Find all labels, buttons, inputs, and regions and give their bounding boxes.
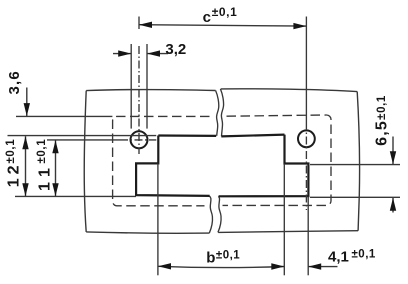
svg-text:b: b (206, 249, 215, 266)
centerline right hole vertical (305, 17, 307, 211)
ext cutout top left (8, 135, 157, 137)
svg-text:±0,1: ±0,1 (5, 139, 17, 164)
ext hole tangents 3,2 (130, 44, 132, 129)
extension lines (8, 44, 401, 275)
ext b right (283, 164, 285, 276)
label 12 (rotated) (5, 139, 23, 187)
ext b left (157, 164, 159, 276)
ext 3,6 top (16, 115, 112, 117)
svg-text:4,1: 4,1 (328, 249, 349, 266)
svg-text:11: 11 (36, 162, 53, 191)
svg-text:±0,1: ±0,1 (36, 139, 48, 164)
dimension c (139, 25, 306, 26)
hole right (298, 130, 315, 147)
dimension b (158, 266, 284, 267)
hidden connector outline (dashed) (113, 115, 331, 206)
svg-text:6,5: 6,5 (373, 120, 390, 146)
centerline left hole horizontal (47, 139, 156, 141)
svg-text:±0,1: ±0,1 (212, 5, 238, 19)
dimension 4,1 (308, 266, 337, 268)
svg-text:±0,1: ±0,1 (352, 248, 376, 260)
svg-text:±0,1: ±0,1 (376, 95, 388, 120)
panel plate outline (84, 89, 359, 233)
centerline left hole vertical (138, 17, 140, 155)
svg-text:c: c (203, 9, 211, 26)
label 11 (rotated) (36, 139, 54, 191)
dimension 3,6 (26, 88, 28, 117)
svg-text:±0,1: ±0,1 (216, 249, 240, 261)
dimension 11 (55, 140, 57, 196)
hole left (131, 131, 148, 148)
break lines top (216, 89, 224, 136)
dimension 6,5 (392, 137, 394, 213)
label 6,5 (rotated) (373, 95, 390, 146)
ext cutout bottom left (15, 195, 136, 197)
ext right bottom (310, 196, 400, 198)
dimension 3,2 (113, 53, 168, 55)
ext 4,1 right (307, 197, 309, 276)
cutout outline (thick) (136, 135, 308, 197)
dimension 12 (25, 136, 27, 196)
break lines bottom (209, 196, 221, 233)
svg-text:3,2: 3,2 (165, 41, 186, 58)
ext right step (310, 164, 400, 166)
svg-text:3,6: 3,6 (6, 70, 23, 94)
svg-text:12: 12 (6, 162, 23, 188)
